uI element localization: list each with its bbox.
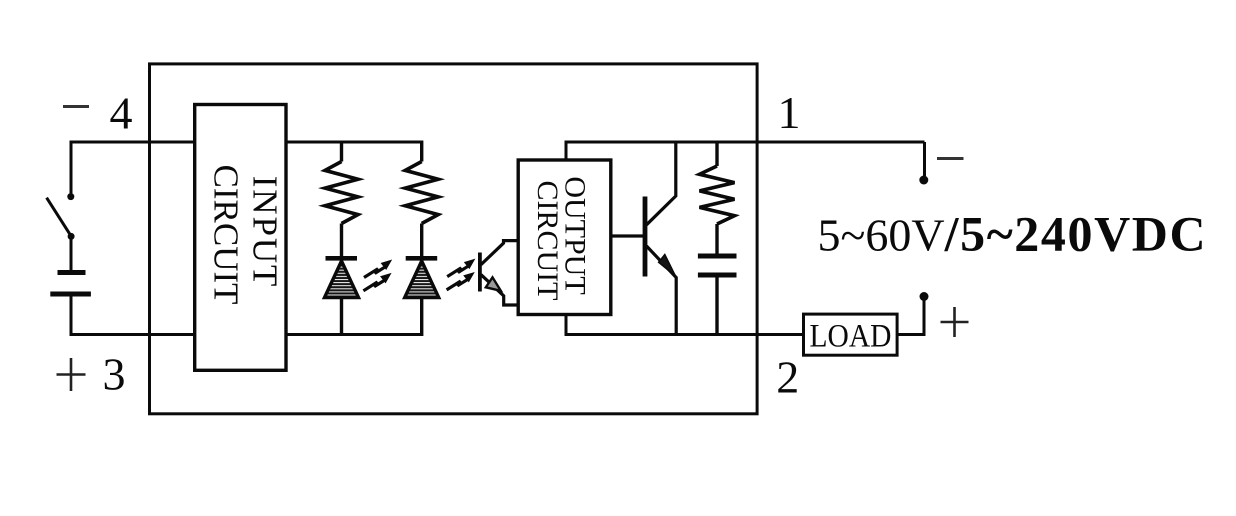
wire: output top rail	[565, 141, 925, 144]
switch S1 top contact dot	[67, 193, 74, 200]
capacitor C1 top plate	[698, 254, 737, 259]
wire: R2 to LED D2	[420, 224, 423, 257]
wire: output box top connector	[565, 142, 568, 160]
LED D2 cathode bar	[406, 256, 438, 261]
svg-text:3: 3	[103, 349, 126, 400]
terminal label minus (top left)	[63, 105, 89, 108]
svg-text:INPUT: INPUT	[246, 176, 285, 289]
OUTPUT CIRCUIT box	[518, 160, 611, 315]
wire: output box bottom connector	[565, 314, 568, 336]
wire: LOAD to terminal 2 riser	[897, 300, 924, 336]
snubber resistor R3 top lead	[715, 141, 718, 167]
LED D1 bottom lead	[340, 298, 343, 335]
wire: left terminal drop	[70, 141, 73, 194]
transistor Q2 collector	[647, 141, 676, 225]
battery BT1 top plate	[58, 270, 86, 275]
resistor R2 zigzag	[405, 162, 438, 224]
svg-text:CIRCUIT: CIRCUIT	[531, 181, 564, 301]
phototransistor Q1 base bar	[478, 253, 482, 292]
LED D1 cathode bar	[326, 256, 358, 261]
LED D2 triangle	[405, 261, 439, 298]
svg-text:5~60V/5~240VDC: 5~60V/5~240VDC	[818, 206, 1208, 262]
svg-text:LOAD: LOAD	[810, 317, 892, 354]
transistor Q2 emitter arrowhead	[659, 255, 676, 277]
LED D2 emission arrows to phototransistor	[447, 260, 474, 290]
switch S1 bottom contact dot	[68, 233, 75, 240]
outer case box	[150, 64, 758, 414]
transistor Q2 base bar	[643, 197, 648, 277]
wire: output bottom rail	[565, 333, 803, 336]
wire: input top rail	[71, 141, 422, 144]
battery BT1 bottom plate	[50, 292, 91, 297]
LED D1 emission arrows	[363, 261, 390, 291]
terminal 1 dot	[919, 176, 928, 185]
INPUT CIRCUIT text	[207, 165, 285, 305]
transistor Q2 emitter	[647, 246, 677, 336]
transistor Q2 base wire	[611, 234, 645, 237]
wire: C1 to bottom rail	[715, 278, 718, 337]
LOAD box	[804, 314, 898, 355]
capacitor C1 bottom plate	[698, 273, 737, 278]
wire: battery to bottom rail	[71, 297, 422, 337]
wire: R1 to LED D1	[340, 224, 343, 257]
INPUT CIRCUIT box	[195, 105, 286, 371]
phototransistor Q1 collector	[481, 241, 518, 265]
phototransistor Q1 emitter	[481, 275, 518, 305]
OUTPUT CIRCUIT text	[531, 176, 592, 300]
wire: terminal 1 drop	[923, 142, 926, 176]
switch S1 blade	[47, 198, 72, 237]
terminal label minus (right)	[937, 157, 964, 160]
resistor R1 top lead	[340, 142, 343, 162]
terminal label plus (bottom left)	[57, 358, 86, 391]
wire: R3 to capacitor C1	[715, 224, 718, 254]
snubber resistor R3 zigzag	[700, 166, 735, 224]
svg-text:CIRCUIT: CIRCUIT	[207, 165, 246, 305]
terminal 2 dot	[920, 292, 929, 301]
phototransistor Q1 emitter arrowhead	[486, 277, 501, 291]
resistor R2 top lead	[420, 141, 423, 162]
svg-text:2: 2	[776, 352, 799, 403]
LED D1 triangle	[325, 261, 359, 298]
resistor R1 zigzag	[325, 162, 358, 224]
svg-text:1: 1	[778, 87, 801, 138]
wire: switch to battery	[70, 236, 73, 270]
svg-text:4: 4	[110, 87, 133, 138]
terminal label plus (right)	[941, 307, 969, 337]
LED D2 bottom lead	[420, 298, 423, 337]
